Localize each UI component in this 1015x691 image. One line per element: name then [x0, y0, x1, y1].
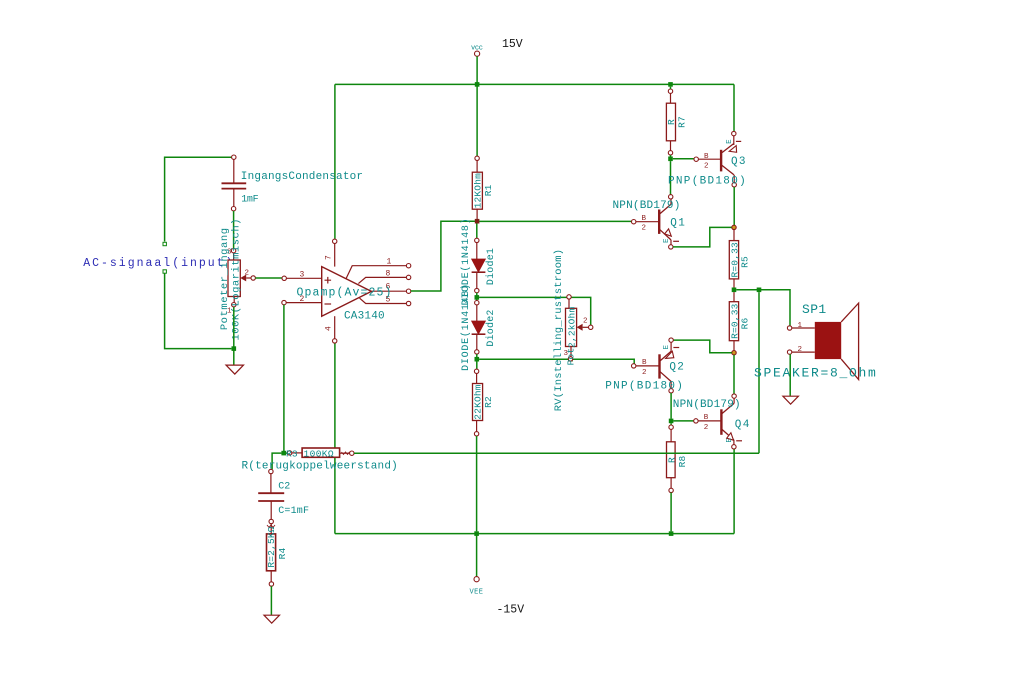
ground R4 — [264, 615, 280, 623]
pin 2 — [282, 300, 286, 304]
svg-text:B: B — [704, 414, 709, 422]
svg-text:Opamp(Av=25): Opamp(Av=25) — [297, 286, 393, 299]
node junction output-feedback — [757, 288, 762, 293]
svg-text:100KΩ: 100KΩ — [304, 448, 335, 459]
pin 1 — [346, 266, 406, 279]
resistor R5 0,33 — [729, 230, 738, 288]
wire bias junction to Q1 base — [479, 220, 631, 222]
wire junction down to R8 — [670, 423, 672, 425]
node input stub bottom — [163, 270, 166, 273]
svg-text:2: 2 — [245, 270, 250, 278]
svg-text:DIODE(1N4148): DIODE(1N4148) — [460, 283, 472, 371]
pin 4 — [333, 339, 337, 343]
svg-text:1: 1 — [387, 258, 392, 267]
resistor R3 100KOhm horizontal — [286, 448, 354, 457]
svg-text:R(terugkoppelweerstand): R(terugkoppelweerstand) — [242, 460, 398, 472]
svg-text:1mF: 1mF — [241, 195, 258, 206]
svg-text:R7: R7 — [677, 116, 688, 128]
wire potmeter bottom to ground — [233, 307, 235, 365]
node R5 top — [732, 225, 736, 229]
svg-text:C2: C2 — [278, 482, 290, 493]
wire Q3 collector down to R5 node — [733, 187, 735, 225]
svg-text:R2: R2 — [483, 396, 494, 408]
ground input — [226, 365, 244, 374]
pin 8 — [358, 277, 406, 283]
wire D2 junction to Q2 base — [477, 354, 634, 364]
wire R6 bottom down to Q4 collector — [733, 355, 735, 394]
svg-text:AC-signaal(input): AC-signaal(input) — [83, 257, 234, 270]
svg-text:E: E — [726, 438, 734, 443]
svg-text:2: 2 — [798, 346, 803, 354]
svg-text:R6: R6 — [740, 318, 751, 330]
svg-text:8: 8 — [386, 270, 391, 279]
wire input bottom loop — [165, 274, 232, 349]
node junction rail-VCC — [475, 82, 480, 87]
wire VCC to rail and down to R1 — [476, 56, 478, 158]
transistor Q1 NPN(BD179) — [632, 195, 680, 249]
resistor R6 0,33 — [729, 292, 738, 350]
svg-text:SP1: SP1 — [802, 302, 827, 317]
svg-text:R4: R4 — [277, 548, 288, 560]
svg-text:E: E — [726, 139, 734, 144]
pin 3 — [282, 276, 286, 280]
power VEE symbol — [470, 577, 484, 597]
svg-text:2: 2 — [583, 318, 588, 326]
resistor R2 22KOhm — [473, 369, 483, 436]
svg-text:R3: R3 — [286, 448, 298, 459]
svg-text:Diode1: Diode1 — [485, 248, 497, 285]
svg-text:C=1mF: C=1mF — [278, 506, 309, 517]
svg-text:1: 1 — [798, 322, 803, 330]
svg-text:SPEAKER=8_Ohm: SPEAKER=8_Ohm — [754, 366, 878, 381]
wire R8 bottom to rail — [670, 493, 672, 532]
node junction rail-R2 — [474, 531, 479, 536]
wire Q1 emitter to R5 top node — [673, 227, 732, 247]
svg-text:CA3140: CA3140 — [344, 311, 385, 323]
potentiometer Potmeter_ingang 100K — [227, 249, 255, 316]
svg-text:2: 2 — [704, 163, 709, 171]
svg-text:Pot: Pot — [566, 348, 577, 366]
svg-text:Q2: Q2 — [669, 362, 685, 374]
wire opamp output elbow up to bias junction — [411, 221, 475, 291]
pin 7 — [333, 239, 337, 243]
wire speaker pin2 to ground — [789, 354, 791, 396]
svg-text:-15V: -15V — [497, 604, 525, 617]
svg-text:B: B — [642, 359, 647, 367]
svg-text:100K(Logaritmisch): 100K(Logaritmisch) — [230, 218, 242, 340]
svg-text:4: 4 — [325, 326, 334, 331]
svg-text:VEE: VEE — [470, 589, 484, 597]
svg-text:PNP(BD180): PNP(BD180) — [605, 380, 684, 392]
op-amp U1 CA3140 — [282, 239, 411, 343]
svg-text:E: E — [663, 238, 671, 243]
node input stub top — [163, 242, 166, 245]
wire pot wiper to opamp pin3 — [255, 277, 284, 279]
resistor R4 2,5KOhm — [267, 524, 276, 587]
transistor Q2 PNP(BD180) — [632, 338, 680, 393]
svg-text:R: R — [666, 119, 677, 125]
wire output node to speaker — [736, 290, 790, 326]
diode D1 1N4148 — [472, 238, 486, 293]
wire rail to VEE — [476, 534, 478, 577]
wire feedback long horizontal — [354, 452, 759, 454]
ground speaker — [783, 396, 799, 404]
potentiometer RV Instelling ruststroom 2,2kOhm — [564, 295, 593, 362]
power VCC symbol — [471, 45, 483, 57]
node R6 bottom — [732, 351, 736, 355]
pin 6 output — [371, 290, 406, 292]
wire R2 bottom to -15V rail — [476, 436, 478, 531]
wire opamp pin2 down to feedback node — [283, 305, 285, 453]
node junction Q2-R8-Q4 — [669, 419, 674, 424]
svg-text:2: 2 — [704, 424, 709, 432]
svg-text:R8: R8 — [677, 456, 688, 468]
svg-text:Q1: Q1 — [670, 218, 686, 230]
resistor R1 12KOhm — [472, 156, 482, 219]
capacitor C1 IngangsCondensator — [222, 155, 247, 211]
wire bottom -15V rail — [335, 533, 734, 535]
svg-text:R1: R1 — [483, 184, 494, 196]
wire rail right drop to Q3 emitter — [733, 84, 735, 131]
wire rail left drop to opamp pin7 — [334, 84, 336, 239]
wire feedback junction to C2 — [272, 453, 281, 469]
diode D2 1N4148 — [472, 301, 486, 355]
svg-text:Q4: Q4 — [735, 419, 751, 431]
resistor R8 — [667, 425, 676, 493]
node junction rail-R7 — [668, 82, 673, 87]
svg-text:Q3: Q3 — [731, 156, 747, 168]
svg-text:E: E — [663, 345, 671, 350]
capacitor C2 — [258, 469, 284, 523]
svg-text:R: R — [667, 457, 678, 463]
wire bias junction down to D1 — [476, 224, 478, 239]
svg-text:3: 3 — [300, 271, 305, 280]
wire rail left rise to opamp pin4 — [334, 343, 336, 533]
node junction R1 bottom bias — [475, 219, 480, 224]
svg-text:12KOhm: 12KOhm — [472, 173, 483, 209]
svg-text:2: 2 — [642, 225, 647, 233]
wire D1-D2 junction to RV wiper elbow — [477, 293, 591, 325]
node junction D1-D2 — [475, 295, 480, 300]
svg-text:R5: R5 — [740, 256, 751, 268]
transistor Q4 NPN(BD179) — [694, 394, 742, 449]
wire Q2 collector to R8 junction — [670, 393, 672, 419]
svg-text:22KOhm: 22KOhm — [473, 384, 484, 420]
svg-text:vcc: vcc — [471, 45, 483, 53]
wire feedback drop — [758, 292, 760, 453]
svg-text:B: B — [642, 215, 647, 223]
node junction feedback at opamp pin2 — [281, 451, 286, 456]
svg-text:Diode2: Diode2 — [485, 309, 497, 346]
wire D2 junction down to R2 — [476, 362, 478, 370]
svg-text:B: B — [704, 153, 709, 161]
node junction output R5-R6 — [732, 288, 737, 293]
node junction D2-R2 — [475, 357, 480, 362]
svg-text:IngangsCondensator: IngangsCondensator — [241, 171, 363, 183]
svg-text:Potmeter_ingang: Potmeter_ingang — [219, 227, 231, 330]
svg-text:R=2,5KΩ: R=2,5KΩ — [266, 526, 277, 567]
wire R7 junction to Q3 base — [671, 155, 695, 159]
wire R4 to ground — [270, 586, 272, 615]
svg-text:RV(Instelling_ruststroom): RV(Instelling_ruststroom) — [553, 249, 565, 412]
speaker SP1 — [787, 303, 858, 379]
node junction rail-R8 — [669, 531, 674, 536]
wire C1 to potmeter — [233, 211, 235, 249]
node junction pot-input — [232, 346, 237, 351]
wire junction to Q4 base — [673, 420, 693, 422]
pin 5 — [360, 298, 407, 303]
resistor R7 — [666, 87, 675, 155]
wire Q2 emitter to R6 bottom — [673, 340, 732, 353]
wire R7 junction down to Q1 collector — [670, 161, 672, 195]
wire top +15V rail — [335, 83, 734, 85]
svg-text:2: 2 — [642, 369, 647, 377]
svg-text:7: 7 — [325, 255, 334, 260]
svg-text:15V: 15V — [502, 38, 523, 51]
wire input top loop — [165, 157, 232, 241]
transistor Q3 PNP(BD180) — [694, 131, 741, 187]
svg-text:2,2kOhm: 2,2kOhm — [567, 307, 578, 348]
wire rail right rise to Q4 emitter — [733, 448, 735, 534]
svg-text:NPN(BD179): NPN(BD179) — [613, 200, 681, 212]
svg-text:NPN(BD179): NPN(BD179) — [673, 399, 741, 411]
svg-text:PNP(BD180): PNP(BD180) — [668, 176, 747, 188]
node junction R7 bottom Q3 base — [668, 157, 673, 162]
